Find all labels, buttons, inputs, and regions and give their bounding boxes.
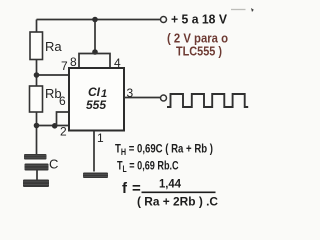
svg-text:TL = 0,69 Rb.C: TL = 0,69 Rb.C	[117, 159, 179, 174]
wire vertical from top wire to pins 8/4 bracket	[94, 20, 96, 53]
node junction Ra/Rb/pin7	[34, 72, 40, 78]
formula TL = 0,69 Rb.C	[117, 159, 179, 174]
terminal output (open circle)	[161, 95, 167, 101]
wire pin 1 down to ground	[93, 131, 95, 172]
svg-text:1,44: 1,44	[159, 177, 181, 191]
svg-text:1: 1	[97, 131, 104, 145]
capacitor C top plate (hatched bar)	[24, 154, 47, 160]
node junction Rb/C/pin2	[34, 123, 40, 129]
node junction pin6 branch	[52, 123, 58, 129]
wire bottom node to pin 2	[37, 125, 70, 127]
wire node to pin 7	[37, 74, 70, 76]
wire bracket joining pins 8 and 4	[79, 54, 110, 69]
svg-text:8: 8	[70, 55, 77, 69]
ground under pin 1 (hatched bar)	[83, 173, 108, 179]
svg-text:555: 555	[86, 98, 106, 112]
wire vertical down to resistor Ra	[36, 20, 38, 33]
formula fraction bar	[142, 191, 216, 193]
scan artifact top right (gray line)	[231, 9, 246, 11]
capacitor C bottom plate (hatched bar)	[25, 164, 49, 171]
scan artifact top right (dark tick)	[251, 8, 254, 12]
svg-text:2: 2	[60, 125, 67, 139]
resistor Ra	[30, 32, 43, 60]
svg-text:( Ra + 2Rb ) .C: ( Ra + 2Rb ) .C	[137, 195, 218, 209]
wire top horizontal from Ra top to supply terminal	[37, 19, 161, 21]
terminal +V supply (open circle)	[161, 17, 167, 23]
resistor Rb	[30, 86, 43, 112]
wire Rb bottom to bottom node	[36, 112, 38, 155]
node junction on top wire	[92, 17, 98, 23]
svg-text:+ 5 a 18 V: + 5 a 18 V	[171, 12, 227, 27]
op IC CI1 555 box	[69, 68, 124, 131]
formula TH = 0,69C ( Ra + Rb )	[115, 143, 213, 158]
svg-text:7: 7	[61, 59, 68, 73]
wire pin 6 branch	[57, 112, 70, 126]
wire capacitor to ground	[36, 171, 38, 180]
svg-text:C: C	[49, 157, 58, 172]
svg-text:Ra: Ra	[45, 39, 62, 54]
svg-text:3: 3	[127, 86, 134, 100]
waveform square wave output	[167, 94, 248, 107]
ground below capacitor (hatched bar)	[23, 180, 49, 188]
svg-text:6: 6	[59, 94, 66, 108]
wire pin 3 output	[124, 97, 160, 99]
node junction at bracket	[92, 49, 98, 55]
svg-text:CI: CI	[88, 85, 101, 99]
svg-text:TLC555 ): TLC555 )	[176, 44, 222, 59]
wire Ra bottom to node	[36, 60, 38, 87]
svg-text:TH = 0,69C ( Ra + Rb ): TH = 0,69C ( Ra + Rb )	[115, 143, 213, 158]
